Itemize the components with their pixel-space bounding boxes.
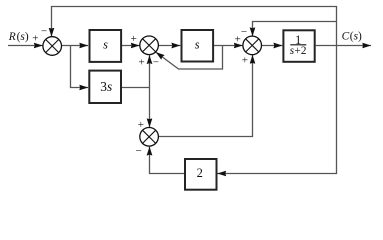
svg-text:2: 2 xyxy=(197,166,203,180)
svg-text:R: R xyxy=(8,31,16,43)
svg-text:(s): (s) xyxy=(17,31,29,43)
svg-text:s: s xyxy=(195,38,200,52)
svg-text:(s): (s) xyxy=(350,31,362,43)
svg-text:+: + xyxy=(138,119,144,131)
svg-text:+: + xyxy=(138,57,144,69)
svg-text:C: C xyxy=(342,31,350,43)
svg-text:+: + xyxy=(242,54,248,66)
svg-text:+: + xyxy=(235,33,241,45)
svg-text:3s: 3s xyxy=(100,79,112,94)
svg-text:s: s xyxy=(103,38,108,52)
svg-text:−: − xyxy=(241,26,247,38)
svg-text:−: − xyxy=(153,57,159,69)
svg-text:−: − xyxy=(135,145,141,157)
svg-text:−: − xyxy=(41,25,47,37)
svg-text:+: + xyxy=(32,33,38,45)
svg-text:s+2: s+2 xyxy=(290,45,307,57)
svg-text:+: + xyxy=(131,33,137,45)
